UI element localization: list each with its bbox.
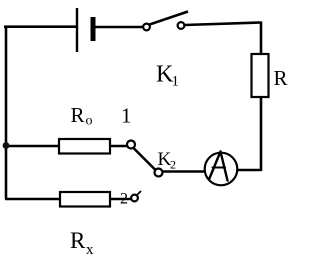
svg-text:x: x <box>86 242 94 258</box>
svg-text:1: 1 <box>121 104 132 128</box>
svg-text:1: 1 <box>172 74 180 90</box>
svg-text:R: R <box>71 103 85 127</box>
svg-text:R: R <box>70 228 86 253</box>
svg-text:o: o <box>86 114 93 129</box>
svg-text:2: 2 <box>120 191 128 208</box>
svg-text:R: R <box>274 66 288 90</box>
svg-text:2: 2 <box>170 158 176 172</box>
